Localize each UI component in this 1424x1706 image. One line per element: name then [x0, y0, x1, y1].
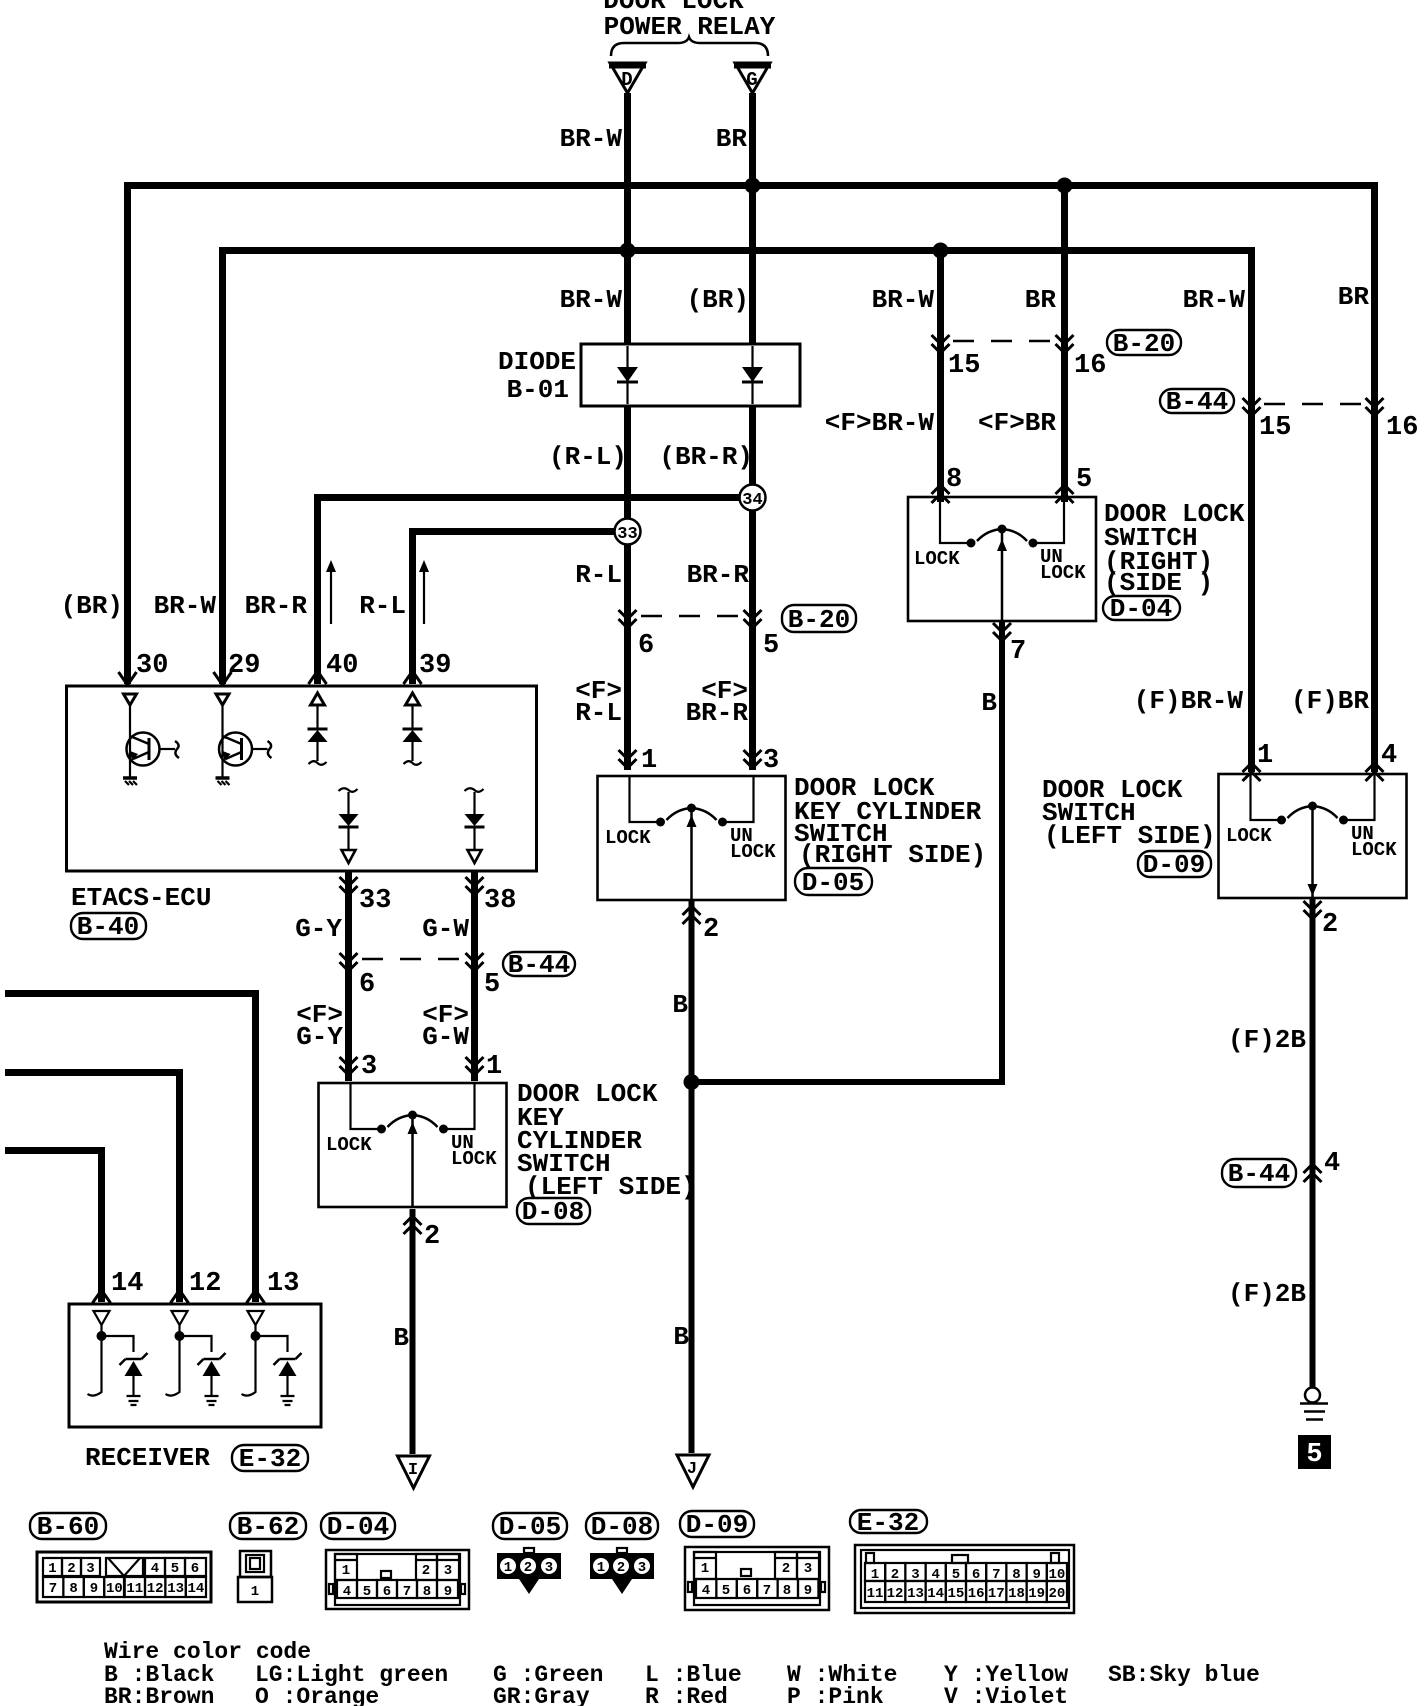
svg-text:3: 3 [911, 1567, 919, 1583]
svg-text:(BR): (BR) [61, 591, 123, 621]
svg-text:3: 3 [804, 1561, 812, 1577]
svg-text:1: 1 [597, 1560, 605, 1576]
svg-text:14: 14 [927, 1586, 944, 1602]
svg-text:B-44: B-44 [1166, 387, 1228, 417]
svg-text:LOCK: LOCK [605, 827, 651, 849]
svg-text:B-60: B-60 [37, 1512, 99, 1542]
svg-text:2: 2 [67, 1561, 75, 1577]
svg-text:8: 8 [946, 465, 962, 495]
svg-text:9: 9 [804, 1583, 812, 1599]
svg-text:13: 13 [267, 1269, 299, 1299]
svg-text:RECEIVER: RECEIVER [85, 1443, 210, 1473]
svg-text:1: 1 [342, 1563, 350, 1579]
svg-text:9: 9 [1032, 1567, 1040, 1583]
svg-text:29: 29 [228, 651, 260, 681]
svg-text:5: 5 [952, 1567, 960, 1583]
svg-text:13: 13 [167, 1581, 184, 1597]
svg-text:(F)2B: (F)2B [1228, 1025, 1306, 1055]
svg-text:8: 8 [783, 1583, 791, 1599]
svg-text:3: 3 [86, 1561, 94, 1577]
svg-text:16: 16 [1074, 351, 1106, 381]
svg-text:3: 3 [545, 1560, 553, 1576]
svg-text:3: 3 [763, 746, 779, 776]
svg-text:2: 2 [782, 1561, 790, 1577]
svg-text:E-32: E-32 [857, 1508, 919, 1538]
svg-text:40: 40 [326, 651, 358, 681]
svg-text:<F>BR: <F>BR [978, 408, 1056, 438]
svg-text:V :Violet: V :Violet [944, 1684, 1068, 1706]
svg-text:BR-W: BR-W [560, 124, 623, 154]
svg-text:I: I [408, 1461, 418, 1480]
svg-text:D-05: D-05 [802, 868, 864, 898]
svg-text:LOCK: LOCK [1040, 562, 1086, 584]
svg-text:R-L: R-L [575, 560, 622, 590]
svg-text:2: 2 [424, 1222, 440, 1252]
svg-text:4: 4 [343, 1584, 351, 1600]
svg-text:BR: BR [1025, 285, 1057, 315]
svg-text:SB:Sky blue: SB:Sky blue [1108, 1662, 1260, 1688]
svg-text:2: 2 [891, 1567, 899, 1583]
svg-text:8: 8 [69, 1581, 77, 1597]
svg-text:R-L: R-L [359, 591, 406, 621]
svg-text:R-L: R-L [575, 698, 622, 728]
svg-text:3: 3 [444, 1563, 452, 1579]
svg-text:<F>BR-W: <F>BR-W [825, 408, 935, 438]
svg-text:B: B [672, 990, 688, 1020]
svg-text:B-20: B-20 [788, 605, 850, 635]
svg-text:5: 5 [722, 1583, 730, 1599]
svg-text:2: 2 [524, 1560, 532, 1576]
svg-text:D-08: D-08 [591, 1512, 653, 1542]
svg-text:16: 16 [1386, 413, 1418, 443]
svg-text:18: 18 [1008, 1586, 1025, 1602]
svg-text:1: 1 [701, 1561, 709, 1577]
svg-text:B-62: B-62 [237, 1512, 299, 1542]
svg-text:1: 1 [251, 1584, 259, 1600]
svg-text:2: 2 [617, 1560, 625, 1576]
svg-text:BR-W: BR-W [872, 285, 935, 315]
svg-text:15: 15 [947, 1586, 964, 1602]
svg-text:LOCK: LOCK [451, 1148, 497, 1170]
svg-text:DIODE: DIODE [498, 347, 576, 377]
svg-text:B: B [673, 1322, 689, 1352]
svg-text:9: 9 [444, 1584, 452, 1600]
svg-text:12: 12 [189, 1269, 221, 1299]
svg-text:5: 5 [763, 631, 779, 661]
svg-text:7: 7 [49, 1581, 57, 1597]
svg-text:B: B [393, 1323, 409, 1353]
svg-text:4: 4 [1381, 741, 1397, 771]
svg-text:BR-W: BR-W [560, 285, 623, 315]
svg-text:5: 5 [484, 970, 500, 1000]
svg-text:LOCK: LOCK [1226, 825, 1272, 847]
svg-text:11: 11 [867, 1586, 884, 1602]
svg-text:5: 5 [1076, 465, 1092, 495]
svg-text:5: 5 [171, 1561, 179, 1577]
svg-text:1: 1 [1257, 741, 1273, 771]
svg-text:6: 6 [191, 1561, 199, 1577]
svg-text:14: 14 [111, 1269, 143, 1299]
svg-text:BR-W: BR-W [1183, 285, 1246, 315]
svg-text:6: 6 [359, 970, 375, 1000]
svg-text:LOCK: LOCK [1351, 839, 1397, 861]
svg-text:6: 6 [972, 1567, 980, 1583]
svg-text:ETACS-ECU: ETACS-ECU [71, 883, 211, 913]
svg-text:G-W: G-W [422, 914, 469, 944]
svg-text:(RIGHT SIDE): (RIGHT SIDE) [799, 840, 986, 870]
svg-text:1: 1 [504, 1560, 512, 1576]
svg-text:(BR): (BR) [687, 285, 749, 315]
svg-text:1: 1 [486, 1052, 502, 1082]
svg-text:R :Red: R :Red [645, 1684, 728, 1706]
svg-text:39: 39 [419, 651, 451, 681]
svg-text:2: 2 [703, 915, 719, 945]
svg-text:B: B [981, 688, 997, 718]
svg-text:17: 17 [988, 1586, 1005, 1602]
svg-text:11: 11 [126, 1581, 143, 1597]
svg-text:BR: BR [716, 124, 748, 154]
svg-text:G: G [746, 69, 757, 91]
svg-text:4: 4 [931, 1567, 939, 1583]
svg-text:LOCK: LOCK [914, 548, 960, 570]
svg-text:14: 14 [187, 1581, 204, 1597]
svg-text:D-09: D-09 [1143, 850, 1205, 880]
svg-text:20: 20 [1048, 1586, 1065, 1602]
svg-text:38: 38 [484, 886, 516, 916]
svg-text:16: 16 [968, 1586, 985, 1602]
svg-text:E-32: E-32 [239, 1444, 301, 1474]
svg-text:3: 3 [638, 1560, 646, 1576]
svg-text:12: 12 [147, 1581, 164, 1597]
svg-text:B-20: B-20 [1113, 329, 1175, 359]
svg-text:(F)BR: (F)BR [1291, 686, 1369, 716]
svg-text:7: 7 [1010, 637, 1026, 667]
svg-text:(LEFT SIDE): (LEFT SIDE) [1044, 821, 1216, 851]
svg-text:7: 7 [403, 1584, 411, 1600]
svg-text:5: 5 [1306, 1440, 1322, 1470]
svg-text:33: 33 [617, 525, 637, 544]
svg-text:1: 1 [641, 746, 657, 776]
svg-text:BR:Brown: BR:Brown [104, 1684, 214, 1706]
svg-text:BR-R: BR-R [686, 698, 749, 728]
svg-text:D: D [621, 69, 632, 91]
svg-text:9: 9 [90, 1581, 98, 1597]
svg-text:1: 1 [871, 1567, 879, 1583]
svg-text:33: 33 [359, 886, 391, 916]
svg-text:7: 7 [992, 1567, 1000, 1583]
svg-text:34: 34 [742, 491, 762, 510]
svg-text:6: 6 [743, 1583, 751, 1599]
svg-text:8: 8 [423, 1584, 431, 1600]
svg-text:8: 8 [1012, 1567, 1020, 1583]
svg-text:BR-W: BR-W [154, 591, 217, 621]
svg-text:G-Y: G-Y [295, 914, 342, 944]
svg-text:D-04: D-04 [1110, 594, 1172, 624]
svg-text:B-44: B-44 [1228, 1159, 1290, 1189]
svg-text:3: 3 [361, 1052, 377, 1082]
svg-text:J: J [687, 1460, 697, 1479]
svg-text:D-08: D-08 [522, 1197, 584, 1227]
svg-text:D-04: D-04 [327, 1512, 389, 1542]
svg-text:4: 4 [1324, 1149, 1340, 1179]
svg-text:B-01: B-01 [507, 375, 569, 405]
svg-text:2: 2 [1322, 910, 1338, 940]
svg-text:12: 12 [887, 1586, 904, 1602]
svg-text:O :Orange: O :Orange [255, 1684, 379, 1706]
svg-text:BR-R: BR-R [245, 591, 308, 621]
svg-text:7: 7 [763, 1583, 771, 1599]
svg-text:4: 4 [702, 1583, 710, 1599]
svg-text:30: 30 [136, 651, 168, 681]
svg-text:D-05: D-05 [499, 1512, 561, 1542]
svg-text:(BR-R): (BR-R) [659, 442, 753, 472]
svg-text:BR-R: BR-R [687, 560, 750, 590]
svg-text:4: 4 [151, 1561, 159, 1577]
svg-text:13: 13 [907, 1586, 924, 1602]
svg-text:19: 19 [1028, 1586, 1045, 1602]
svg-text:10: 10 [106, 1581, 123, 1597]
svg-text:5: 5 [363, 1584, 371, 1600]
svg-text:15: 15 [948, 351, 980, 381]
svg-text:G-W: G-W [422, 1022, 469, 1052]
svg-text:(F)BR-W: (F)BR-W [1134, 686, 1244, 716]
svg-text:D-09: D-09 [686, 1510, 748, 1540]
svg-text:B-40: B-40 [77, 912, 139, 942]
svg-text:2: 2 [422, 1563, 430, 1579]
svg-text:G-Y: G-Y [296, 1022, 343, 1052]
svg-text:B-44: B-44 [508, 950, 570, 980]
svg-text:6: 6 [638, 631, 654, 661]
svg-text:(R-L): (R-L) [549, 442, 627, 472]
svg-text:1: 1 [48, 1561, 56, 1577]
svg-text:LOCK: LOCK [326, 1134, 372, 1156]
svg-text:BR: BR [1338, 282, 1370, 312]
svg-text:10: 10 [1048, 1567, 1065, 1583]
svg-text:GR:Gray: GR:Gray [493, 1684, 590, 1706]
svg-text:(F)2B: (F)2B [1228, 1279, 1306, 1309]
svg-text:6: 6 [383, 1584, 391, 1600]
svg-text:P :Pink: P :Pink [787, 1684, 884, 1706]
svg-text:15: 15 [1259, 413, 1291, 443]
svg-text:LOCK: LOCK [730, 841, 776, 863]
